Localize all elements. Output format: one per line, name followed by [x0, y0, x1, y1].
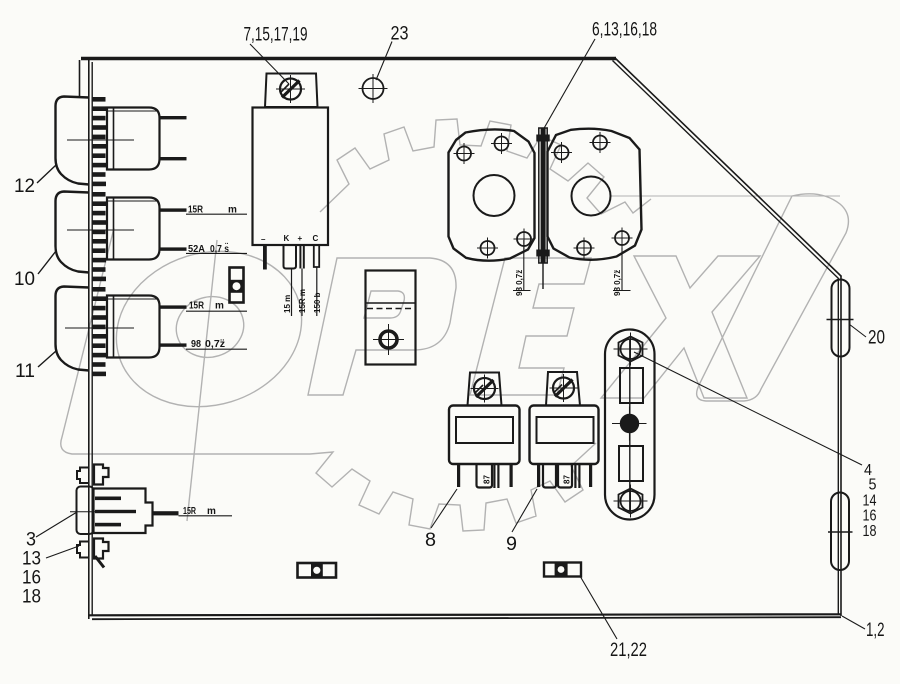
svg-text:98 0,7z̈: 98 0,7z̈ — [515, 270, 524, 296]
watermark vertical stray line — [187, 240, 217, 521]
relay 8 body — [449, 406, 520, 465]
solenoid left center hole — [474, 175, 515, 216]
connector 11 pin upper with label line 15R m — [160, 305, 187, 308]
board bottom edge inner line — [92, 617, 841, 619]
relay 8 tab screw — [471, 375, 499, 403]
connector 3 pin with label line — [153, 511, 233, 516]
connector 10 centerline — [67, 229, 134, 231]
bolt bar 6 between solenoids — [536, 128, 549, 289]
solenoid right screw c — [574, 238, 595, 259]
connector 10 shell — [38, 192, 89, 275]
jumper 21,22 left — [298, 563, 337, 578]
pin capsule 20 — [827, 280, 854, 357]
connector 10 plug — [107, 198, 160, 260]
regulator U1 tab — [265, 74, 318, 108]
connector 3 bottom clip — [77, 539, 109, 568]
svg-text:m: m — [207, 506, 216, 517]
leader line 21,22 — [580, 576, 617, 639]
hole 23 — [359, 74, 388, 103]
connector 10 pin lower with label line 52A — [160, 247, 187, 250]
watermark gear top arc — [320, 119, 651, 214]
leader line 4 — [634, 352, 862, 465]
connector 12 plug — [107, 108, 160, 170]
leader line 8 — [431, 489, 457, 528]
WATERMARK — [61, 119, 849, 531]
connector 3 body — [70, 487, 153, 535]
svg-text:0,7 s̈: 0,7 s̈ — [210, 241, 229, 254]
svg-text:15R: 15R — [183, 506, 197, 517]
svg-text:150 b: 150 b — [313, 292, 322, 313]
watermark swoosh band right — [697, 194, 849, 401]
relay 8 window — [456, 417, 513, 443]
svg-text:18: 18 — [863, 523, 877, 540]
solenoid cover right body — [548, 129, 642, 260]
BOARD — [80, 58, 842, 620]
svg-text:C: C — [313, 234, 319, 243]
solenoid right screw a — [590, 132, 611, 153]
leader line 9 — [512, 489, 537, 532]
oval bracket upper fuse — [620, 368, 643, 403]
leader line 6,13,16,18 — [543, 39, 595, 130]
dimension leader right solenoid 98 0,7 — [613, 248, 631, 291]
watermark letter O inner — [169, 288, 252, 365]
board left edge — [88, 60, 90, 619]
svg-text:21,22: 21,22 — [610, 640, 647, 661]
watermark swoosh left with bottom line — [61, 228, 310, 454]
relay 9 pin 5 — [589, 464, 592, 487]
board right edge inner line — [837, 278, 839, 614]
solenoid cover left body — [449, 129, 535, 260]
solenoid left screw b — [454, 143, 475, 164]
svg-text:18: 18 — [22, 587, 41, 608]
watermark letter P counter — [364, 291, 404, 318]
relay 9 pin 4 — [575, 464, 579, 488]
pin capsule lower 5,14 — [828, 493, 853, 571]
connector 12 pin upper — [160, 116, 187, 119]
leader line 3 — [36, 512, 77, 537]
relay 9 window — [537, 417, 594, 443]
leader line 20 — [849, 324, 866, 337]
watermark gear bottom arc — [310, 443, 596, 531]
connector 10 comb teeth — [93, 192, 107, 281]
connector 11 shell — [38, 287, 89, 371]
relay 9 tab screw — [550, 374, 578, 402]
board right edge — [840, 276, 842, 616]
fuse holder small vertical — [230, 268, 244, 303]
watermark letter P — [308, 258, 456, 395]
relay 9 body — [530, 406, 599, 465]
relay 9 pin 1 — [537, 464, 540, 487]
svg-text:13: 13 — [22, 549, 41, 570]
svg-text:K: K — [284, 234, 290, 243]
regulator U1 pin 1 — [263, 246, 267, 270]
svg-text:–: – — [261, 235, 266, 244]
leader line 7,15,17,19 — [250, 44, 289, 84]
solenoid right screw d — [612, 228, 633, 249]
svg-text:16: 16 — [22, 568, 41, 589]
connector 12 centerline — [67, 139, 134, 141]
connector 11 centerline — [65, 327, 134, 329]
solenoid right center hole — [572, 177, 611, 216]
relay 8 pin 4 — [510, 464, 513, 487]
svg-text:15R: 15R — [189, 301, 205, 312]
svg-text:3: 3 — [26, 530, 36, 551]
connector 11 comb teeth — [93, 287, 107, 376]
svg-text:15R: 15R — [188, 205, 204, 216]
connector 11 pin lower with label line 98 — [160, 343, 187, 346]
solenoid left screw c — [477, 238, 498, 259]
svg-text:98: 98 — [191, 339, 201, 350]
relay 8 pin 1 — [457, 464, 460, 487]
connector 3 top clip — [77, 465, 109, 485]
regulator U1 body — [253, 108, 329, 246]
watermark letter O outer — [97, 229, 321, 429]
svg-text:20: 20 — [868, 328, 885, 349]
svg-text:10: 10 — [14, 269, 35, 290]
svg-text:9: 9 — [506, 534, 517, 555]
svg-text:m: m — [228, 205, 237, 216]
connector 12 shell — [37, 97, 89, 185]
svg-text:98 0,7z̈: 98 0,7z̈ — [613, 270, 622, 296]
svg-text:8: 8 — [425, 530, 436, 551]
relay 8 pin 87 — [477, 464, 493, 488]
connector 11 plug — [107, 296, 160, 358]
svg-text:1,2: 1,2 — [866, 620, 885, 641]
relay 8 pin 3 — [494, 464, 498, 488]
board top edge — [81, 57, 616, 60]
bracket block with screw — [366, 271, 416, 365]
relay 9 tab — [546, 372, 580, 406]
relay 8 tab — [468, 373, 502, 406]
connector 12 comb teeth — [93, 97, 107, 186]
leader line 13,16,18 — [46, 546, 79, 558]
oval bracket mid screw — [612, 407, 647, 441]
svg-text:15 m: 15 m — [283, 295, 292, 313]
solenoid left screw d — [514, 229, 535, 250]
board top-left corner outer line — [79, 60, 81, 97]
relay 9 pin 2 — [543, 464, 556, 488]
svg-text:0,7z̈: 0,7z̈ — [205, 338, 225, 350]
svg-text:+: + — [298, 234, 303, 243]
oval bracket top nut — [614, 333, 648, 366]
svg-text:87: 87 — [483, 475, 492, 484]
regulator U1 pin + — [300, 246, 303, 317]
jumper 21,22 right — [544, 563, 581, 577]
svg-text:12: 12 — [14, 176, 35, 197]
oval bracket lower fuse — [619, 446, 643, 481]
svg-text:15R m: 15R m — [298, 289, 307, 313]
board diagonal edge inner line — [613, 61, 839, 279]
leader line 23 — [376, 42, 392, 81]
oval bracket 4 outline — [605, 330, 655, 520]
svg-text:m: m — [215, 301, 224, 312]
svg-text:6,13,16,18: 6,13,16,18 — [592, 20, 657, 41]
board bottom edge — [89, 614, 841, 615]
svg-text:52A: 52A — [188, 244, 205, 255]
solenoid right screw b — [551, 142, 572, 163]
watermark letter E — [470, 258, 591, 395]
svg-text:87: 87 — [563, 475, 572, 484]
watermark letter X left — [601, 256, 760, 398]
board left edge inner line — [91, 62, 93, 616]
svg-text:16: 16 — [863, 508, 877, 525]
board diagonal edge — [615, 58, 842, 277]
watermark horizontal line right — [610, 195, 840, 197]
svg-text:11: 11 — [15, 361, 35, 382]
oval bracket rod — [629, 340, 631, 512]
regulator U1 pin C — [314, 246, 319, 317]
leader line 1,2 — [842, 616, 865, 629]
svg-text:5: 5 — [869, 477, 877, 494]
dimension leader left solenoid 98 0,7 — [513, 240, 531, 291]
regulator U1 tab screw — [276, 75, 305, 103]
svg-text:7,15,17,19: 7,15,17,19 — [244, 25, 308, 46]
svg-text:23: 23 — [391, 24, 409, 45]
relay 9 pin 87 — [558, 464, 572, 488]
oval bracket bottom nut — [614, 485, 648, 518]
connector 12 pin lower — [160, 157, 187, 160]
solenoid left screw a — [491, 133, 512, 154]
connector 10 pin upper with label line 15R m — [160, 208, 187, 211]
regulator U1 pin K — [284, 246, 297, 317]
